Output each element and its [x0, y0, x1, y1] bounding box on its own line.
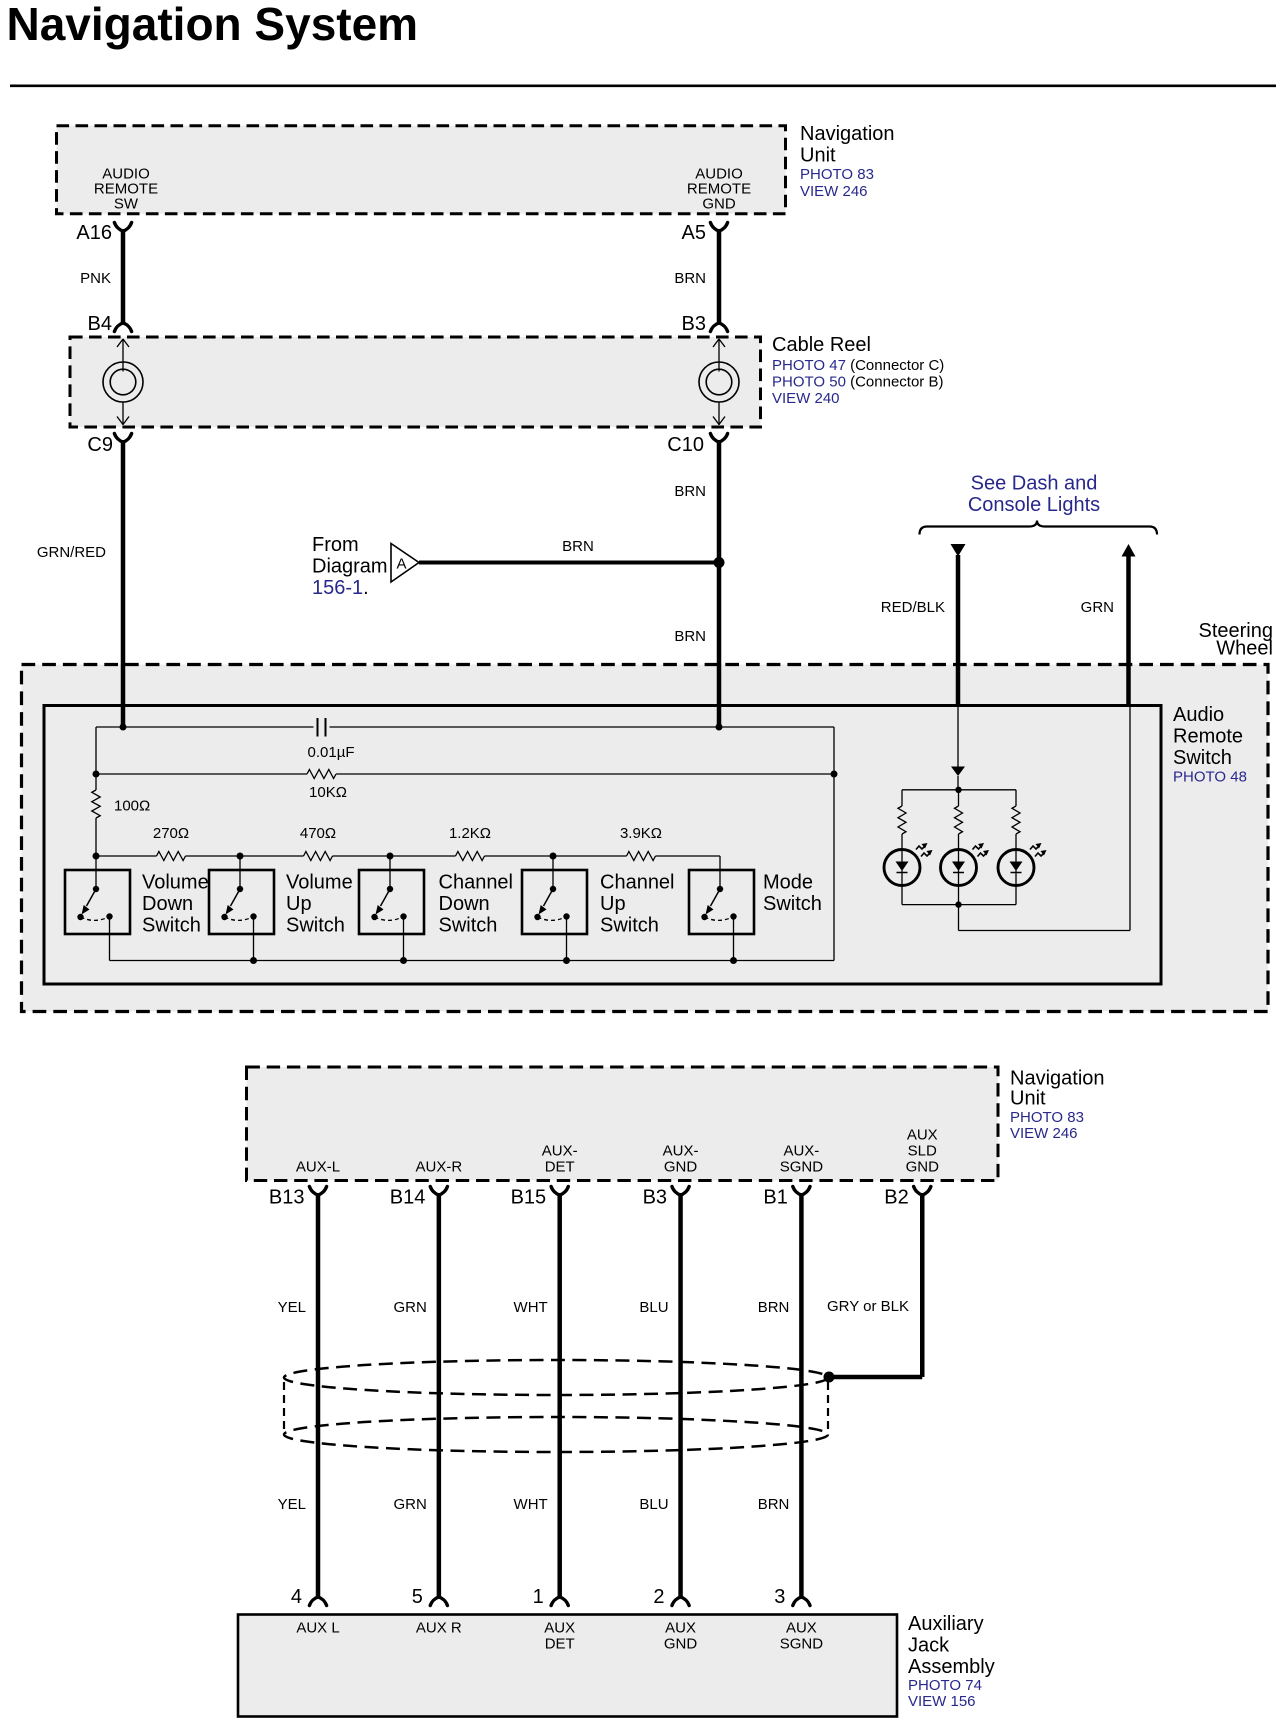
- svg-text:Mode: Mode: [763, 872, 813, 894]
- svg-text:0.01µF: 0.01µF: [308, 744, 355, 761]
- svg-text:Down: Down: [142, 893, 193, 915]
- svg-text:WHT: WHT: [514, 1299, 548, 1316]
- svg-text:Down: Down: [439, 893, 490, 915]
- svg-text:Channel: Channel: [439, 872, 514, 894]
- svg-text:DET: DET: [545, 1636, 575, 1653]
- svg-text:Switch: Switch: [1173, 747, 1232, 769]
- svg-text:AUX: AUX: [665, 1620, 696, 1637]
- svg-text:DET: DET: [545, 1159, 575, 1176]
- svg-text:AUX R: AUX R: [416, 1620, 462, 1637]
- svg-text:Console Lights: Console Lights: [968, 494, 1100, 516]
- svg-text:BRN: BRN: [562, 538, 594, 555]
- svg-text:Switch: Switch: [439, 915, 498, 937]
- svg-text:VIEW 156: VIEW 156: [908, 1693, 976, 1710]
- svg-text:470Ω: 470Ω: [300, 825, 336, 842]
- svg-text:Audio: Audio: [1173, 704, 1224, 726]
- svg-text:Up: Up: [600, 893, 626, 915]
- svg-text:YEL: YEL: [278, 1299, 306, 1316]
- svg-text:BRN: BRN: [674, 270, 706, 287]
- svg-text:Navigation: Navigation: [800, 123, 895, 145]
- svg-text:2: 2: [653, 1586, 664, 1608]
- svg-text:GRN: GRN: [1081, 599, 1114, 616]
- svg-text:AUX-R: AUX-R: [416, 1159, 463, 1176]
- svg-text:1: 1: [533, 1586, 544, 1608]
- svg-text:B3: B3: [682, 313, 706, 335]
- svg-text:RED/BLK: RED/BLK: [881, 599, 945, 616]
- svg-text:SGND: SGND: [780, 1159, 824, 1176]
- svg-text:PHOTO 83: PHOTO 83: [800, 166, 874, 183]
- svg-text:AUX-: AUX-: [783, 1143, 819, 1160]
- svg-text:A5: A5: [682, 222, 706, 244]
- svg-text:A16: A16: [76, 222, 112, 244]
- svg-text:AUX: AUX: [544, 1620, 575, 1637]
- svg-text:GND: GND: [664, 1159, 698, 1176]
- svg-text:Switch: Switch: [286, 915, 345, 937]
- svg-text:GRN: GRN: [394, 1299, 427, 1316]
- svg-text:Remote: Remote: [1173, 726, 1243, 748]
- svg-text:SW: SW: [114, 196, 139, 213]
- svg-text:C10: C10: [667, 434, 704, 456]
- svg-text:Switch: Switch: [142, 915, 201, 937]
- svg-text:Assembly: Assembly: [908, 1656, 995, 1678]
- svg-text:Volume: Volume: [286, 872, 353, 894]
- svg-text:GND: GND: [664, 1636, 698, 1653]
- svg-text:Switch: Switch: [600, 915, 659, 937]
- svg-text:VIEW 240: VIEW 240: [772, 390, 840, 407]
- svg-text:WHT: WHT: [514, 1496, 548, 1513]
- svg-text:B3: B3: [643, 1187, 667, 1209]
- svg-text:From: From: [312, 534, 359, 556]
- svg-text:5: 5: [412, 1586, 423, 1608]
- svg-text:SGND: SGND: [780, 1636, 824, 1653]
- svg-text:Jack: Jack: [908, 1635, 950, 1657]
- svg-text:Cable Reel: Cable Reel: [772, 334, 871, 356]
- svg-text:GND: GND: [702, 196, 736, 213]
- svg-text:AUX L: AUX L: [296, 1620, 339, 1637]
- svg-text:AUX: AUX: [786, 1620, 817, 1637]
- svg-text:Unit: Unit: [800, 145, 836, 167]
- svg-text:A: A: [397, 556, 407, 573]
- svg-text:VIEW 246: VIEW 246: [1010, 1125, 1078, 1142]
- svg-text:B13: B13: [269, 1187, 305, 1209]
- svg-text:270Ω: 270Ω: [153, 825, 189, 842]
- svg-text:B1: B1: [763, 1187, 787, 1209]
- svg-text:Switch: Switch: [763, 893, 822, 915]
- svg-text:Unit: Unit: [1010, 1088, 1046, 1110]
- svg-text:4: 4: [291, 1586, 302, 1608]
- svg-text:Navigation System: Navigation System: [7, 0, 419, 50]
- svg-text:B14: B14: [390, 1187, 426, 1209]
- svg-text:PHOTO 50 (Connector B): PHOTO 50 (Connector B): [772, 374, 943, 391]
- svg-text:BRN: BRN: [758, 1299, 790, 1316]
- svg-text:See Dash and: See Dash and: [971, 473, 1098, 495]
- svg-text:PHOTO 48: PHOTO 48: [1173, 769, 1247, 786]
- svg-text:AUX-L: AUX-L: [296, 1159, 340, 1176]
- svg-text:GRY or BLK: GRY or BLK: [827, 1298, 909, 1315]
- svg-text:BRN: BRN: [674, 628, 706, 645]
- svg-text:Volume: Volume: [142, 872, 209, 894]
- svg-text:Wheel: Wheel: [1216, 638, 1273, 660]
- svg-text:3: 3: [774, 1586, 785, 1608]
- svg-text:100Ω: 100Ω: [114, 798, 150, 815]
- svg-text:BRN: BRN: [674, 483, 706, 500]
- svg-text:Up: Up: [286, 893, 312, 915]
- svg-text:1.2KΩ: 1.2KΩ: [449, 825, 491, 842]
- svg-text:PNK: PNK: [80, 270, 111, 287]
- svg-text:Auxiliary: Auxiliary: [908, 1613, 984, 1635]
- svg-text:GRN: GRN: [394, 1496, 427, 1513]
- svg-text:156-1.: 156-1.: [312, 577, 369, 599]
- svg-text:AUX-: AUX-: [542, 1143, 578, 1160]
- svg-text:BLU: BLU: [639, 1299, 668, 1316]
- svg-text:Channel: Channel: [600, 872, 675, 894]
- svg-text:B15: B15: [511, 1187, 547, 1209]
- svg-text:AUX: AUX: [907, 1127, 938, 1144]
- svg-text:BLU: BLU: [639, 1496, 668, 1513]
- svg-text:Navigation: Navigation: [1010, 1068, 1105, 1090]
- svg-text:PHOTO 74: PHOTO 74: [908, 1677, 982, 1694]
- svg-text:3.9KΩ: 3.9KΩ: [620, 825, 662, 842]
- svg-text:PHOTO 47 (Connector C): PHOTO 47 (Connector C): [772, 357, 944, 374]
- svg-text:PHOTO 83: PHOTO 83: [1010, 1109, 1084, 1126]
- svg-text:GRN/RED: GRN/RED: [37, 544, 106, 561]
- svg-text:YEL: YEL: [278, 1496, 306, 1513]
- svg-text:10KΩ: 10KΩ: [309, 784, 347, 801]
- svg-text:BRN: BRN: [758, 1496, 790, 1513]
- svg-text:C9: C9: [87, 434, 113, 456]
- svg-text:GND: GND: [906, 1159, 940, 1176]
- svg-text:B4: B4: [88, 313, 112, 335]
- svg-text:Diagram: Diagram: [312, 556, 388, 578]
- svg-text:VIEW 246: VIEW 246: [800, 183, 868, 200]
- svg-text:B2: B2: [884, 1187, 908, 1209]
- svg-text:AUX-: AUX-: [663, 1143, 699, 1160]
- svg-text:SLD: SLD: [908, 1143, 937, 1160]
